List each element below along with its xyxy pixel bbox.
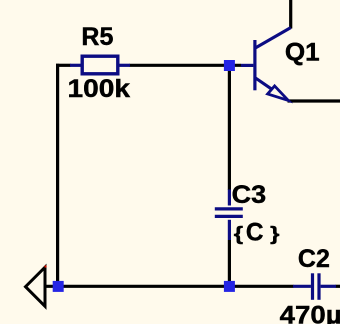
wire: C2 right tip to edge <box>336 285 340 288</box>
wire: R5 to base junction <box>129 64 241 67</box>
svg-text:C: C <box>246 218 264 246</box>
wire: collector to top edge <box>289 0 292 29</box>
capacitor C3 <box>215 190 243 241</box>
resistor R5 <box>70 56 130 74</box>
capacitor C2 <box>293 273 336 300</box>
wire: emitter to right edge <box>288 99 340 102</box>
junction: bottom-middle node <box>224 281 235 292</box>
origin dot (red) <box>44 265 46 267</box>
transistor Q1 <box>241 28 291 101</box>
junction: base node <box>224 60 235 71</box>
svg-text:R5: R5 <box>81 23 113 51</box>
svg-text:470µ: 470µ <box>280 301 340 324</box>
ground arrow (net label triangle) <box>26 267 46 306</box>
svg-text:}: } <box>270 223 280 245</box>
svg-text:C3: C3 <box>232 181 267 209</box>
wire: junction down to C3 <box>228 66 231 191</box>
svg-text:C2: C2 <box>298 245 330 273</box>
svg-text:100k: 100k <box>68 75 131 103</box>
junction: bottom-left node <box>53 281 64 292</box>
wire: bottom horizontal <box>45 285 294 288</box>
svg-text:Q1: Q1 <box>285 38 320 66</box>
wire: left vertical (node base net) <box>56 64 59 287</box>
wire: C3 down to bottom junction <box>228 240 231 286</box>
wire: top-left horizontal to R5 <box>56 64 71 67</box>
svg-text:{: { <box>234 223 244 245</box>
